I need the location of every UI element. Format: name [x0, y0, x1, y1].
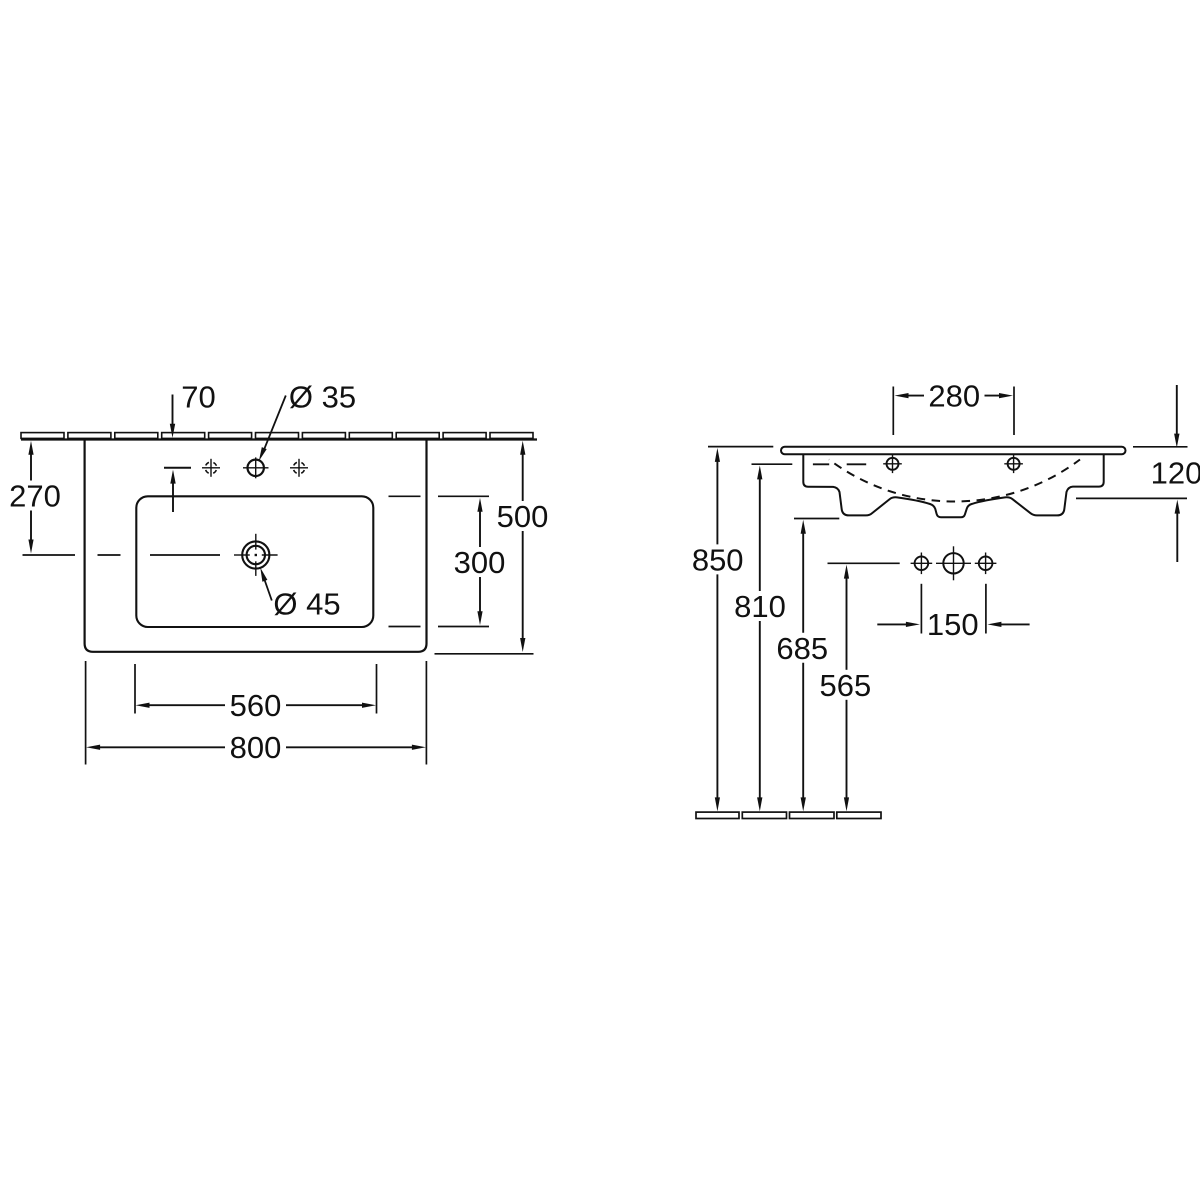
dimension 560: [135, 664, 377, 723]
hidden bowl arc (dashed): [829, 460, 1080, 502]
svg-text:850: 850: [692, 542, 744, 577]
mounting hole center: [936, 546, 971, 580]
wall holes reference line: [828, 562, 900, 564]
dimension 500: [435, 441, 549, 654]
dimension 800: [86, 661, 427, 765]
alternate tap hole mark (left): [202, 459, 220, 477]
svg-text:300: 300: [454, 545, 506, 580]
svg-text:560: 560: [230, 688, 282, 723]
wall hatch (plan view): [21, 433, 533, 439]
label diam 35 leader: [259, 380, 356, 462]
svg-text:120: 120: [1151, 456, 1200, 491]
svg-text:Ø 35: Ø 35: [289, 380, 356, 415]
svg-text:Ø 45: Ø 45: [273, 587, 340, 622]
inner bowl outline: [136, 496, 373, 627]
svg-text:500: 500: [497, 499, 549, 534]
svg-text:810: 810: [734, 589, 786, 624]
drain hole (diam 45): [234, 534, 278, 576]
svg-text:150: 150: [927, 607, 979, 642]
dimension 810: [734, 464, 792, 811]
dimension 685: [776, 519, 839, 812]
svg-text:70: 70: [181, 380, 215, 415]
alternate tap hole mark (right): [290, 459, 308, 477]
dimension 70: [164, 380, 216, 513]
dimension 565: [820, 565, 872, 812]
rim slab (side view): [781, 447, 1126, 454]
hidden overflow line (dashed): [813, 463, 866, 465]
tap hole (diam 35): [243, 457, 269, 478]
basin body outline (side view): [803, 454, 1103, 517]
dimension 300: [389, 496, 506, 626]
basin outer outline (plan): [85, 440, 427, 652]
floor hatch: [696, 812, 881, 818]
centerline (horizontal, through drain): [23, 554, 221, 556]
mounting hole right: [975, 553, 997, 575]
dimension 270: [9, 441, 61, 554]
svg-text:280: 280: [928, 378, 980, 413]
tap hole symbol side view (left): [883, 455, 902, 474]
dimension 150: [877, 584, 1029, 642]
dimension 120: [1076, 385, 1200, 562]
svg-text:565: 565: [820, 668, 872, 703]
svg-text:800: 800: [230, 730, 282, 765]
dimension 280: [893, 378, 1014, 435]
wall line: [21, 438, 537, 440]
svg-text:270: 270: [9, 479, 61, 514]
tap hole symbol side view (right): [1004, 455, 1023, 474]
mounting hole left: [911, 553, 933, 575]
dimension 850: [692, 447, 773, 812]
svg-text:685: 685: [776, 631, 828, 666]
label diam 45 leader: [260, 568, 340, 622]
